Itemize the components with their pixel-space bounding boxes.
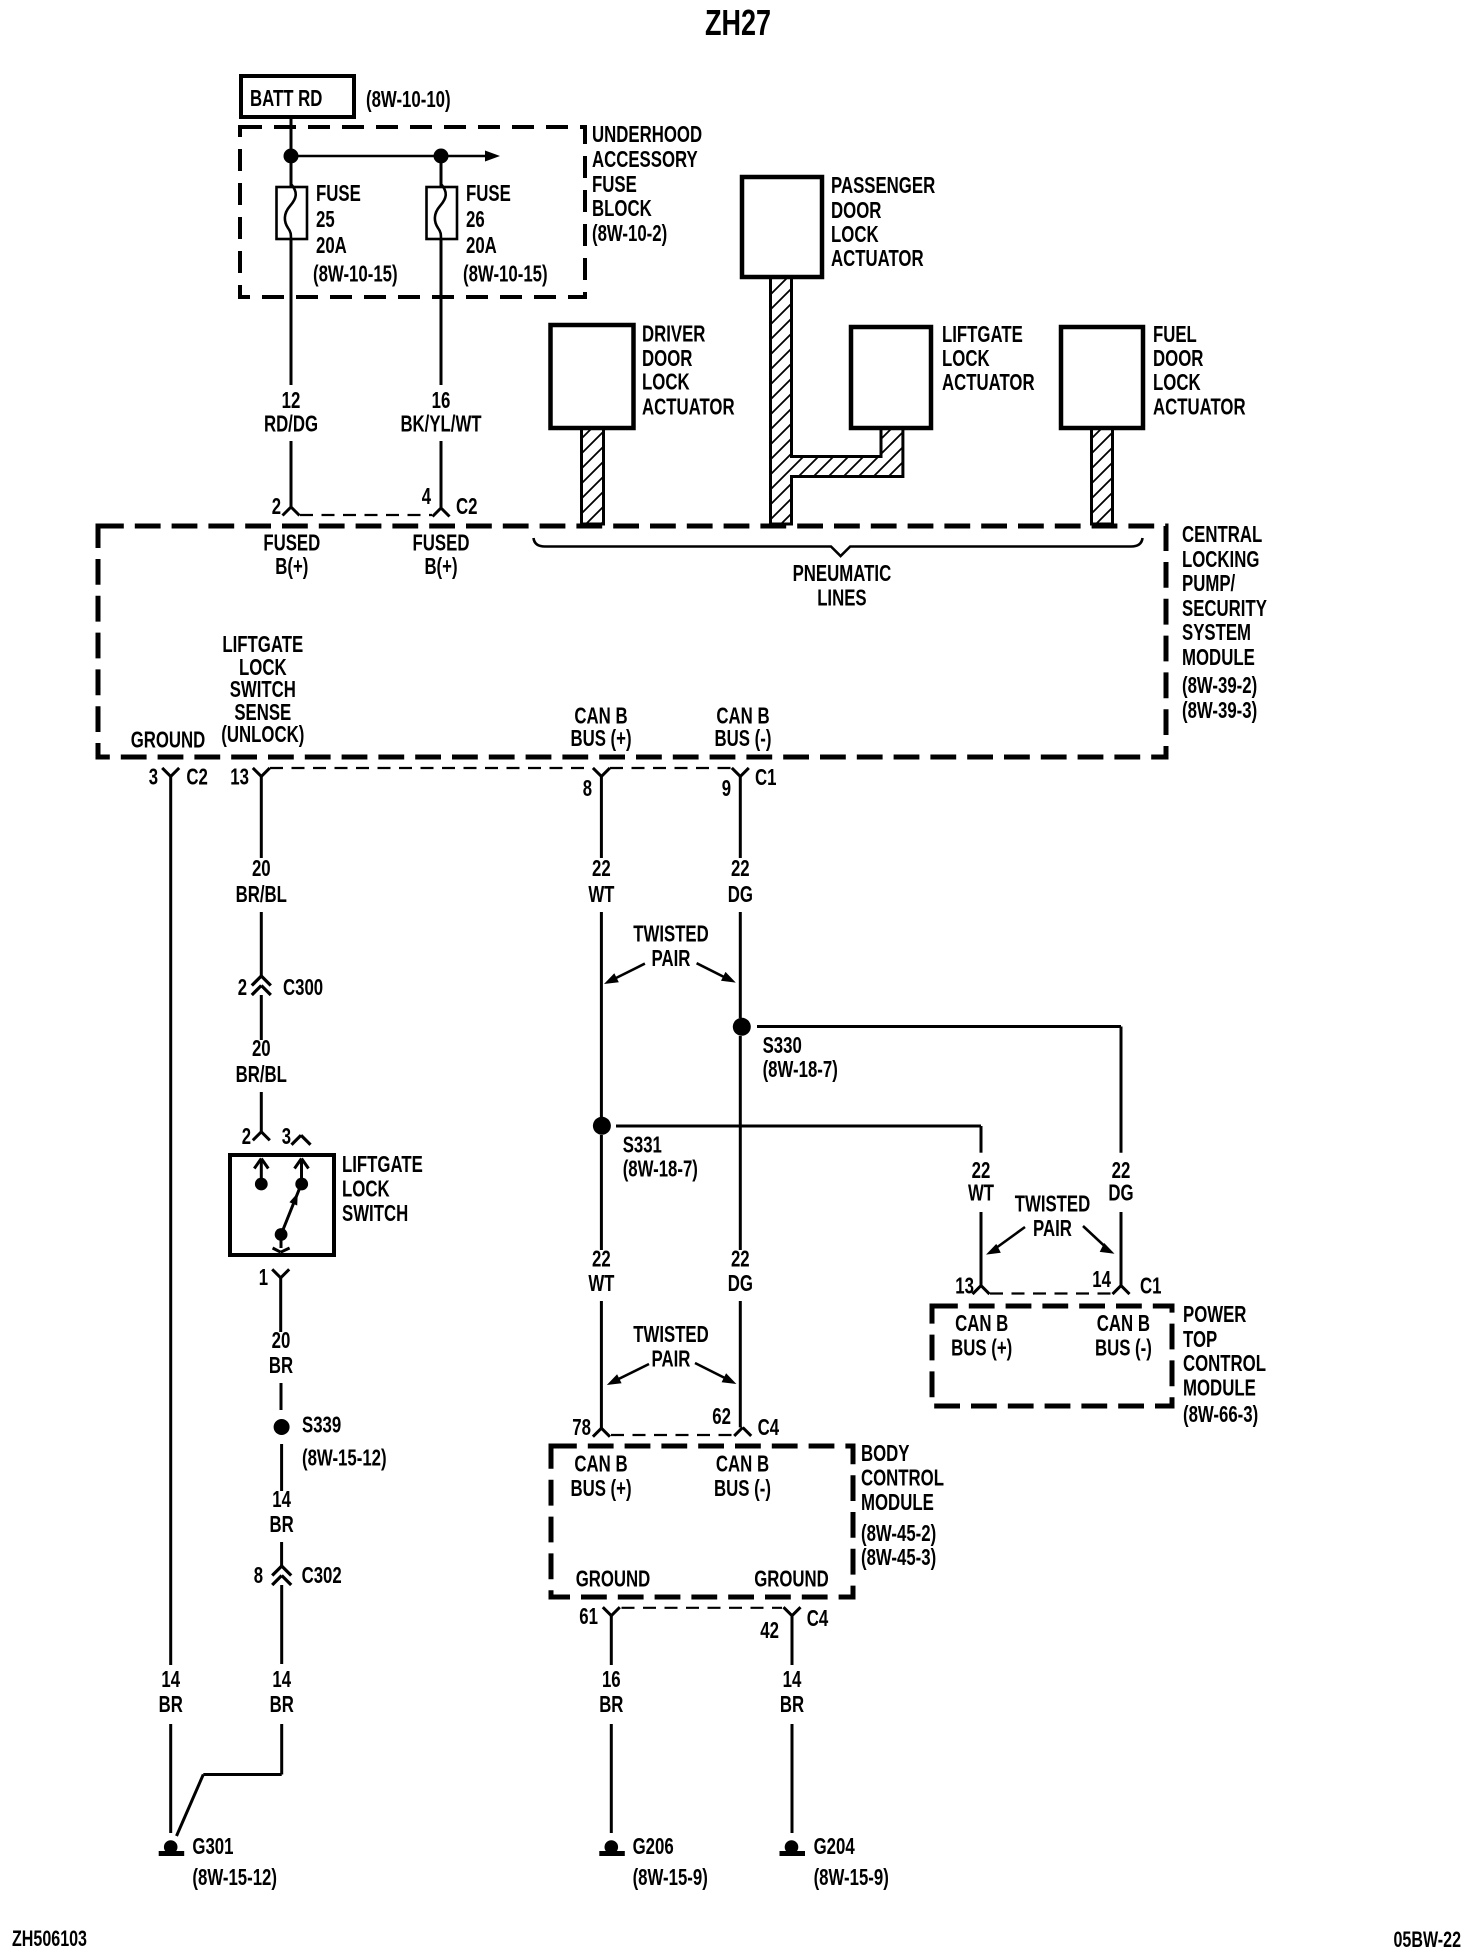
svg-text:BR: BR	[269, 1352, 293, 1378]
pin link dash 8-9	[610, 767, 731, 769]
label CAN B BUS (-) module	[715, 703, 772, 751]
wire canb+ seg3	[600, 1135, 603, 1250]
wire sense pin13 seg1	[260, 776, 263, 858]
svg-text:(8W-15-12): (8W-15-12)	[192, 1864, 277, 1890]
wire bus to fuse 26	[440, 156, 443, 188]
svg-text:LOCK: LOCK	[942, 345, 990, 371]
wire switch seg4	[280, 1542, 283, 1566]
svg-text:LIFTGATE: LIFTGATE	[342, 1151, 423, 1177]
switch common stem	[273, 1235, 290, 1253]
module power top control (dashed)	[932, 1306, 1172, 1406]
svg-text:(8W-39-3): (8W-39-3)	[1182, 697, 1257, 723]
svg-text:DOOR: DOOR	[642, 345, 693, 371]
svg-text:CONTROL: CONTROL	[1183, 1350, 1266, 1376]
connector C300	[238, 974, 323, 1000]
svg-text:ACTUATOR: ACTUATOR	[1153, 394, 1246, 420]
svg-text:2: 2	[238, 974, 247, 1000]
wire 14 BR label s339	[270, 1486, 294, 1537]
label FUSED B(+) pin2	[263, 530, 320, 580]
twisted pair arrow right left	[986, 1227, 1025, 1255]
svg-text:BR/BL: BR/BL	[236, 881, 287, 907]
wire canb- seg4	[739, 1301, 742, 1427]
svg-text:25: 25	[316, 206, 335, 232]
svg-text:BR/BL: BR/BL	[236, 1061, 287, 1087]
svg-text:8: 8	[254, 1562, 263, 1588]
wire sense seg4	[260, 1092, 263, 1132]
pin link dash 13-14 ptcm	[990, 1292, 1112, 1294]
svg-text:WT: WT	[968, 1180, 994, 1206]
svg-text:LIFTGATE: LIFTGATE	[942, 321, 1023, 347]
svg-text:SWITCH: SWITCH	[342, 1200, 408, 1226]
svg-text:12: 12	[282, 387, 301, 413]
svg-text:C1: C1	[1140, 1273, 1162, 1299]
svg-text:BK/YL/WT: BK/YL/WT	[400, 411, 481, 437]
svg-text:05BW-22: 05BW-22	[1394, 1927, 1462, 1952]
svg-text:(8W-18-7): (8W-18-7)	[623, 1156, 698, 1182]
svg-text:BATT RD: BATT RD	[250, 85, 322, 111]
wire S330 branch	[757, 1027, 1121, 1153]
svg-text:SECURITY: SECURITY	[1182, 595, 1267, 621]
label CAN B BUS (+) ptcm	[951, 1310, 1012, 1361]
svg-text:DG: DG	[1108, 1180, 1133, 1206]
label CAN B BUS (+) module	[570, 703, 631, 751]
pin 9 connector C1	[722, 764, 777, 801]
wire sense seg2	[260, 912, 263, 976]
svg-text:(UNLOCK): (UNLOCK)	[221, 721, 304, 747]
svg-text:POWER: POWER	[1183, 1301, 1247, 1327]
svg-text:9: 9	[722, 775, 731, 801]
switch lever wiper	[275, 1188, 300, 1241]
svg-text:LOCK: LOCK	[342, 1176, 390, 1202]
wire S331 branch	[616, 1126, 981, 1153]
label PNEUMATIC LINES	[793, 560, 892, 611]
svg-text:(8W-66-3): (8W-66-3)	[1183, 1401, 1258, 1427]
svg-text:ZH27: ZH27	[705, 2, 771, 43]
wire sense seg3	[260, 995, 263, 1040]
svg-text:14: 14	[1092, 1266, 1111, 1292]
ground G204	[780, 1833, 889, 1890]
svg-text:BR: BR	[599, 1691, 623, 1717]
svg-text:3: 3	[149, 764, 158, 790]
svg-text:GROUND: GROUND	[754, 1566, 829, 1592]
wire canb- seg1	[739, 776, 742, 858]
svg-text:C302: C302	[302, 1562, 342, 1588]
module body control (dashed)	[551, 1446, 853, 1597]
fuse F26 symbol	[427, 184, 458, 385]
svg-text:C4: C4	[807, 1605, 829, 1631]
svg-text:13: 13	[230, 764, 249, 790]
pin link dash 2-4	[300, 514, 432, 516]
connector C302	[254, 1562, 342, 1588]
wire canb- seg3	[739, 1036, 742, 1250]
svg-text:1: 1	[259, 1264, 268, 1290]
svg-text:20A: 20A	[466, 232, 497, 258]
svg-text:B(+): B(+)	[275, 553, 308, 579]
svg-text:BUS (+): BUS (+)	[570, 725, 631, 751]
wire canb+ seg2	[600, 912, 603, 1117]
splice S330	[733, 1018, 838, 1082]
wire batt rd to fuse 25	[290, 117, 293, 188]
bus wire with arrow	[291, 151, 500, 162]
wire 22 DG label lower	[728, 1246, 753, 1297]
svg-text:CAN B: CAN B	[1097, 1310, 1150, 1336]
wire bcm gnd left seg2	[610, 1724, 613, 1833]
svg-text:16: 16	[602, 1666, 621, 1692]
wire 12 lower segment	[290, 441, 293, 507]
pin 62 connector C4	[712, 1403, 779, 1440]
pin link dash 78-62	[611, 1434, 733, 1436]
wire ground pin3 lower	[169, 1724, 172, 1833]
svg-text:FUSE: FUSE	[466, 180, 511, 206]
svg-text:C1: C1	[755, 764, 777, 790]
svg-text:LOCKING: LOCKING	[1182, 546, 1259, 572]
svg-text:BR: BR	[780, 1691, 804, 1717]
svg-text:C2: C2	[186, 764, 208, 790]
fuel door lock actuator	[1061, 321, 1246, 428]
wire ground pin3 upper	[169, 776, 172, 1665]
svg-text:CAN B: CAN B	[574, 1451, 627, 1477]
driver door lock actuator	[551, 321, 735, 429]
label CAN B BUS (-) ptcm	[1095, 1310, 1152, 1361]
svg-text:22: 22	[731, 1246, 750, 1272]
ground G206	[599, 1833, 708, 1890]
svg-text:14: 14	[161, 1666, 180, 1692]
svg-text:BR: BR	[270, 1691, 294, 1717]
footer sheet number ZH506103	[12, 1926, 87, 1951]
pin 14 ptcm connector C1	[1092, 1266, 1161, 1299]
label FUSE 26 20A (8W-10-15)	[463, 180, 548, 287]
switch contact pin2	[254, 1159, 268, 1191]
svg-text:SYSTEM: SYSTEM	[1182, 619, 1251, 645]
twisted pair arrow upper left	[604, 964, 645, 984]
wire 20 BR/BL label upper	[236, 855, 287, 907]
label GROUND bcm right	[754, 1566, 829, 1592]
wire ground 14 BR label	[159, 1666, 183, 1717]
svg-text:BR: BR	[270, 1511, 294, 1537]
switch contact pin3	[295, 1159, 309, 1191]
svg-text:14: 14	[783, 1666, 802, 1692]
svg-text:FUSED: FUSED	[413, 530, 470, 556]
svg-text:DRIVER: DRIVER	[642, 321, 706, 347]
label FUSED B(+) pin4	[413, 530, 470, 580]
label UNDERHOOD ACCESSORY FUSE BLOCK	[592, 121, 702, 246]
svg-text:BUS (-): BUS (-)	[1095, 1335, 1152, 1361]
svg-text:2: 2	[272, 493, 281, 519]
label FUSE 25 20A (8W-10-15)	[313, 180, 398, 287]
label TWISTED PAIR upper	[633, 921, 709, 972]
wire 22 WT label upper	[588, 855, 614, 907]
svg-text:FUSED: FUSED	[263, 530, 320, 556]
title ZH27	[705, 2, 771, 43]
svg-text:S330: S330	[763, 1032, 802, 1058]
svg-text:WT: WT	[588, 1270, 614, 1296]
pin 61 connector	[579, 1603, 620, 1629]
svg-text:PUMP/: PUMP/	[1182, 570, 1236, 596]
svg-text:(8W-45-3): (8W-45-3)	[861, 1544, 936, 1570]
wire 22 WT label ptcm	[968, 1157, 994, 1206]
label GROUND bcm left	[576, 1566, 651, 1592]
svg-text:62: 62	[712, 1403, 731, 1429]
wire 20 BR label	[269, 1327, 293, 1378]
svg-text:(8W-15-9): (8W-15-9)	[633, 1864, 708, 1890]
svg-text:C2: C2	[456, 493, 478, 519]
wire canb- seg2	[739, 912, 742, 1018]
pneumatic line fuel door	[1092, 428, 1113, 524]
wire 20 BR/BL label lower	[236, 1035, 287, 1087]
pin 13 connector	[230, 764, 270, 790]
svg-text:DG: DG	[728, 881, 753, 907]
pin 2 switch connector	[242, 1123, 270, 1149]
svg-text:BLOCK: BLOCK	[592, 195, 652, 221]
wire 14 BR label c302	[270, 1666, 294, 1717]
svg-text:ACTUATOR: ACTUATOR	[642, 394, 735, 420]
svg-text:PAIR: PAIR	[652, 1346, 691, 1372]
svg-text:(8W-10-2): (8W-10-2)	[592, 220, 667, 246]
svg-text:WT: WT	[588, 881, 614, 907]
svg-text:CENTRAL: CENTRAL	[1182, 521, 1262, 547]
svg-text:4: 4	[422, 483, 431, 509]
wire 16 BR label	[599, 1666, 623, 1717]
wire ptcm canb+ seg	[980, 1212, 983, 1286]
svg-text:DOOR: DOOR	[831, 197, 882, 223]
svg-text:LINES: LINES	[817, 585, 866, 611]
passenger door lock actuator	[742, 172, 935, 277]
pin link dash 61-42	[622, 1607, 783, 1609]
svg-text:(8W-15-9): (8W-15-9)	[814, 1864, 889, 1890]
svg-text:78: 78	[572, 1414, 591, 1440]
twisted pair arrow right right	[1083, 1226, 1115, 1254]
wire 16 BK/YL/WT label	[400, 387, 481, 437]
svg-text:BUS (-): BUS (-)	[715, 725, 772, 751]
brace pneumatic lines	[534, 538, 1143, 556]
svg-text:(8W-10-15): (8W-10-15)	[463, 261, 548, 287]
svg-text:14: 14	[272, 1486, 291, 1512]
wire switch seg2	[280, 1383, 283, 1410]
label POWER TOP CONTROL MODULE	[1183, 1301, 1266, 1427]
svg-text:GROUND: GROUND	[131, 727, 206, 753]
twisted pair arrow upper right	[697, 963, 736, 982]
wire 22 WT label lower	[588, 1246, 614, 1297]
svg-text:MODULE: MODULE	[1183, 1375, 1256, 1401]
svg-text:(8W-45-2): (8W-45-2)	[861, 1520, 936, 1546]
svg-text:13: 13	[955, 1273, 974, 1299]
svg-text:20: 20	[272, 1327, 291, 1353]
svg-text:42: 42	[760, 1617, 779, 1643]
svg-text:(8W-18-7): (8W-18-7)	[763, 1056, 838, 1082]
svg-text:ACCESSORY: ACCESSORY	[592, 146, 698, 172]
module central locking pump/security system (dashed)	[98, 526, 1166, 757]
svg-text:DG: DG	[728, 1270, 753, 1296]
pin 4 connector C2	[422, 483, 478, 519]
fuse F25 symbol	[277, 184, 308, 385]
svg-text:MODULE: MODULE	[1182, 644, 1255, 670]
svg-text:S331: S331	[623, 1132, 662, 1158]
svg-text:BUS (+): BUS (+)	[570, 1475, 631, 1501]
svg-text:(8W-10-10): (8W-10-10)	[366, 86, 451, 112]
svg-text:8: 8	[583, 775, 592, 801]
wire canb+ seg1	[600, 776, 603, 858]
label LIFTGATE LOCK SWITCH	[342, 1151, 423, 1226]
svg-text:BR: BR	[159, 1691, 183, 1717]
svg-text:G206: G206	[633, 1833, 674, 1859]
wire 12 RD/DG label	[264, 387, 318, 437]
svg-text:CAN B: CAN B	[955, 1310, 1008, 1336]
pin 2 connector	[272, 493, 300, 519]
wire bcm gnd left seg1	[610, 1616, 613, 1665]
pin 3 switch connector	[282, 1123, 311, 1149]
wire canb+ seg4	[600, 1301, 603, 1428]
svg-text:PASSENGER: PASSENGER	[831, 172, 935, 198]
pin 13 ptcm connector	[955, 1273, 989, 1299]
svg-text:FUSE: FUSE	[316, 180, 361, 206]
junction dot fuse bus right	[434, 149, 449, 164]
svg-text:RD/DG: RD/DG	[264, 411, 318, 437]
svg-text:26: 26	[466, 206, 485, 232]
svg-text:PAIR: PAIR	[652, 945, 691, 971]
wire ptcm canb- seg	[1120, 1212, 1123, 1286]
svg-text:ACTUATOR: ACTUATOR	[942, 369, 1035, 395]
pin 78 connector	[572, 1414, 610, 1440]
wire 22 DG label ptcm	[1108, 1157, 1133, 1206]
twisted pair arrow lower right	[695, 1363, 736, 1384]
svg-text:14: 14	[272, 1666, 291, 1692]
svg-text:TWISTED: TWISTED	[633, 1321, 709, 1347]
svg-text:22: 22	[731, 855, 750, 881]
switch liftgate lock box	[230, 1155, 334, 1255]
svg-text:BUS (+): BUS (+)	[951, 1335, 1012, 1361]
splice S331	[593, 1117, 698, 1182]
liftgate lock actuator	[851, 321, 1035, 428]
label LIFTGATE LOCK SWITCH SENSE (UNLOCK)	[221, 631, 304, 747]
svg-text:BODY: BODY	[861, 1440, 910, 1466]
svg-text:22: 22	[592, 1246, 611, 1272]
svg-text:16: 16	[432, 387, 451, 413]
footer page number 05BW-22	[1394, 1927, 1462, 1952]
svg-text:PNEUMATIC: PNEUMATIC	[793, 560, 892, 586]
svg-text:61: 61	[579, 1603, 598, 1629]
ground G301	[159, 1833, 277, 1890]
svg-text:MODULE: MODULE	[861, 1489, 934, 1515]
label GROUND pin3	[131, 727, 206, 753]
svg-text:2: 2	[242, 1123, 251, 1149]
wire switch seg3	[280, 1444, 283, 1491]
label TWISTED PAIR lower	[633, 1321, 709, 1372]
pin 42 connector C4	[760, 1605, 828, 1643]
svg-text:CAN B: CAN B	[716, 1451, 769, 1477]
junction dot fuse bus left	[284, 149, 299, 164]
label CENTRAL LOCKING PUMP/SECURITY SYSTEM MODULE	[1182, 521, 1267, 723]
wire bcm gnd right seg1	[791, 1616, 794, 1665]
svg-text:G204: G204	[814, 1833, 855, 1859]
pin 8 connector	[583, 768, 610, 801]
svg-text:G301: G301	[192, 1833, 233, 1859]
svg-text:(8W-10-15): (8W-10-15)	[313, 261, 398, 287]
svg-text:PAIR: PAIR	[1033, 1215, 1072, 1241]
pin 1 connector	[259, 1264, 290, 1290]
svg-text:DOOR: DOOR	[1153, 345, 1204, 371]
svg-text:(8W-39-2): (8W-39-2)	[1182, 672, 1257, 698]
splice S339	[274, 1412, 387, 1471]
wire switch seg1	[279, 1278, 282, 1332]
wire switch seg5	[280, 1585, 283, 1664]
label CAN B BUS (+) bcm	[570, 1451, 631, 1501]
label TWISTED PAIR right	[1015, 1191, 1091, 1241]
wire 22 DG label upper	[728, 855, 753, 907]
wire 16 lower segment	[440, 441, 443, 508]
pneumatic line driver door	[582, 428, 604, 524]
wire switch seg6 to ground	[177, 1724, 282, 1836]
pin 3 connector C2	[149, 764, 208, 790]
label BODY CONTROL MODULE	[861, 1440, 944, 1570]
svg-text:GROUND: GROUND	[576, 1566, 651, 1592]
svg-text:ZH506103: ZH506103	[12, 1926, 87, 1951]
svg-text:TOP: TOP	[1183, 1326, 1217, 1352]
twisted pair arrow lower left	[607, 1364, 649, 1385]
svg-text:CONTROL: CONTROL	[861, 1465, 944, 1491]
svg-text:FUSE: FUSE	[592, 171, 637, 197]
fuse link BATT RD box	[241, 76, 354, 117]
svg-text:LOCK: LOCK	[1153, 369, 1201, 395]
pin link dash 13-8	[270, 767, 592, 769]
svg-text:C4: C4	[758, 1414, 780, 1440]
svg-text:FUEL: FUEL	[1153, 321, 1197, 347]
svg-text:B(+): B(+)	[424, 553, 457, 579]
svg-text:TWISTED: TWISTED	[633, 921, 709, 947]
svg-text:3: 3	[282, 1123, 291, 1149]
pneumatic line passenger and liftgate	[771, 277, 903, 524]
svg-text:LOCK: LOCK	[831, 221, 879, 247]
svg-text:TWISTED: TWISTED	[1015, 1191, 1091, 1217]
svg-text:ACTUATOR: ACTUATOR	[831, 245, 924, 271]
svg-text:BUS (-): BUS (-)	[714, 1475, 771, 1501]
svg-text:22: 22	[592, 855, 611, 881]
svg-text:20A: 20A	[316, 232, 347, 258]
svg-text:UNDERHOOD: UNDERHOOD	[592, 121, 702, 147]
svg-text:20: 20	[252, 855, 271, 881]
underhood accessory fuse block (dashed)	[240, 127, 585, 297]
svg-text:LOCK: LOCK	[642, 369, 690, 395]
svg-text:(8W-15-12): (8W-15-12)	[302, 1445, 387, 1471]
svg-text:S339: S339	[302, 1412, 341, 1438]
svg-text:C300: C300	[283, 974, 323, 1000]
label CAN B BUS (-) bcm	[714, 1451, 771, 1501]
svg-text:20: 20	[252, 1035, 271, 1061]
label (8W-10-10)	[366, 86, 451, 112]
wire bcm gnd right seg2	[791, 1724, 794, 1833]
wire 14 BR label right	[780, 1666, 804, 1717]
